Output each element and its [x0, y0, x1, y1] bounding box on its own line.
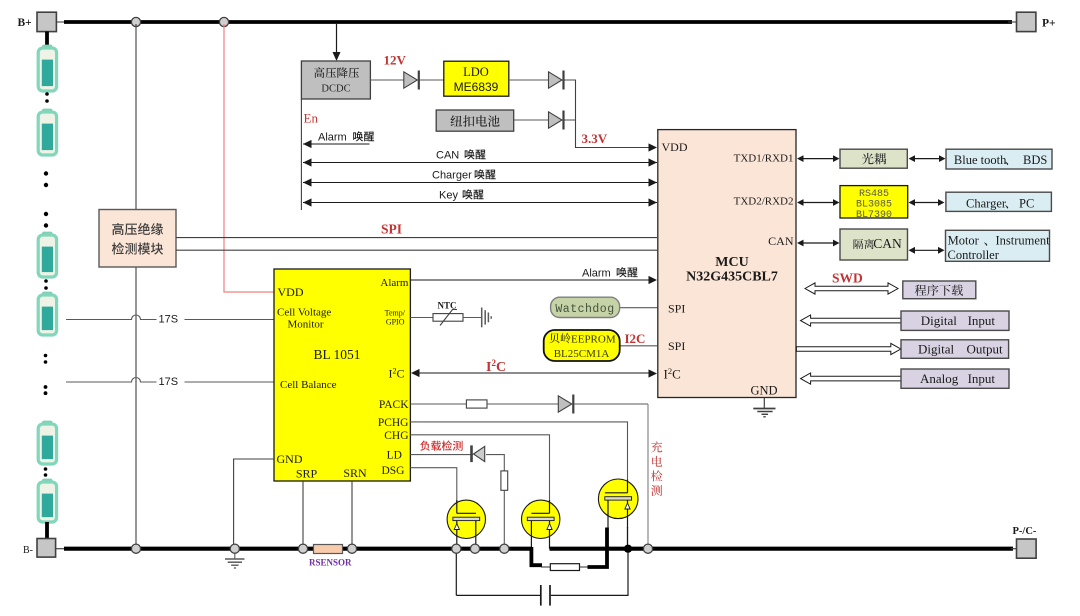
- ground symbol below bus: [234, 554, 236, 559]
- wire GND to bottom bus: [234, 459, 274, 544]
- svg-text:En: En: [304, 111, 319, 126]
- wire capacitor right to bus junction: [551, 551, 628, 595]
- chassis ground right-facing: [481, 308, 483, 328]
- svg-text:PC: PC: [1019, 197, 1034, 211]
- SWD hollow double arrow: [805, 283, 898, 294]
- RS485 transceiver box: [840, 186, 908, 218]
- svg-text:I2C: I2C: [664, 366, 681, 382]
- svg-text:ME6839: ME6839: [454, 80, 499, 94]
- diode D1: [404, 72, 418, 88]
- svg-text:CHG: CHG: [384, 430, 408, 442]
- svg-text:SWD: SWD: [832, 271, 863, 286]
- series dots: [44, 279, 48, 283]
- DCDC converter box: [301, 61, 370, 99]
- svg-text:VDD: VDD: [662, 140, 688, 154]
- Charger PC box: [946, 192, 1052, 211]
- resistor on PACK line: [466, 400, 487, 408]
- svg-text:Digital: Digital: [918, 342, 954, 357]
- svg-text:Blue tooth: Blue tooth: [954, 153, 1007, 167]
- battery cell 1: [38, 45, 56, 91]
- wire DCDC to diode D1: [370, 79, 403, 81]
- node on bottom bus at x136: [131, 544, 140, 553]
- svg-text:GND: GND: [277, 452, 303, 466]
- coin cell box: [436, 110, 514, 131]
- node on bottom bus at Q1 right: [470, 544, 479, 553]
- svg-text:Alarm: Alarm: [318, 132, 347, 144]
- svg-text:Input: Input: [968, 371, 996, 386]
- MOSFET Q3 precharge: [598, 479, 638, 519]
- svg-text:B-: B-: [23, 545, 33, 556]
- svg-text:CAN: CAN: [768, 234, 794, 248]
- node on bottom bus at SRP: [298, 544, 307, 553]
- wire SPI line 1: [176, 237, 657, 239]
- svg-text:SRP: SRP: [296, 466, 318, 480]
- svg-text:N32G435CBL7: N32G435CBL7: [686, 270, 778, 285]
- svg-text:I2C: I2C: [486, 358, 506, 375]
- battery cell 6: [38, 479, 56, 522]
- wire resistor to diode D4: [487, 403, 558, 405]
- wire top bus down to DCDC with arrow: [336, 24, 338, 53]
- svg-text:Cell Voltage: Cell Voltage: [277, 307, 331, 319]
- node on bottom bus at load: [500, 544, 509, 553]
- node on bottom bus at SRN: [347, 544, 356, 553]
- wire B+ pad to battery stack: [45, 32, 49, 47]
- MOSFET Q2 charge: [522, 500, 560, 538]
- wire DSG to Q1 gate: [410, 468, 456, 514]
- svg-text:CAN: CAN: [873, 236, 902, 251]
- 3.3V rail wire to MCU VDD: [576, 80, 651, 148]
- wire D2 to 3.3V rail: [565, 79, 577, 81]
- Bluetooth BDS box: [946, 149, 1052, 169]
- wire MCU CAN to isolated CAN: [799, 242, 838, 244]
- battery cell 2: [38, 109, 56, 155]
- svg-text:Instrument: Instrument: [996, 234, 1051, 248]
- wire Alarm wake: [303, 143, 370, 145]
- thermistor NTC: [433, 314, 463, 322]
- wire SPI line 2: [176, 249, 657, 251]
- svg-text:P-/C-: P-/C-: [1013, 526, 1037, 537]
- label load detect: [420, 441, 462, 451]
- svg-text:P+: P+: [1042, 18, 1056, 30]
- current sense resistor RSENSOR: [314, 545, 343, 554]
- wire precharge resistor right: [580, 566, 590, 568]
- svg-text:VDD: VDD: [278, 285, 304, 299]
- wire Alarm to MCU: [410, 279, 653, 281]
- MCU N32G435CBL7 box: [658, 130, 796, 398]
- svg-text:CAN: CAN: [436, 150, 459, 162]
- wire watchdog to MCU SPI: [620, 307, 658, 309]
- svg-text:LDO: LDO: [463, 65, 489, 79]
- wire PCHG to Q3 gate: [410, 422, 627, 492]
- svg-text:EEPROM: EEPROM: [571, 333, 616, 345]
- wire EEPROM to MCU SPI: [620, 345, 658, 347]
- svg-text:Cell Balance: Cell Balance: [280, 379, 337, 391]
- svg-text:3.3V: 3.3V: [582, 131, 608, 146]
- bottom bus left segment: [56, 548, 68, 550]
- svg-text:BL 1051: BL 1051: [313, 347, 360, 362]
- wire D5 to load resistor: [486, 455, 504, 471]
- Digital Output box: [901, 340, 1009, 359]
- svg-text:PCHG: PCHG: [378, 417, 409, 429]
- diode D5 left-pointing: [470, 445, 473, 462]
- svg-text:Monitor: Monitor: [288, 319, 324, 331]
- ellipsis dots pair: [44, 385, 48, 389]
- wire Temp/GPIO to NTC: [410, 317, 433, 319]
- svg-text:BL3085: BL3085: [856, 199, 892, 210]
- wire bus down to capacitor left: [455, 551, 457, 596]
- wire Key wake: [303, 202, 657, 204]
- wire CAN wake: [303, 162, 657, 164]
- svg-text:BDS: BDS: [1023, 153, 1047, 167]
- terminal B- pad: [37, 539, 56, 558]
- wire battery stack to B- pad: [45, 522, 49, 539]
- ellipsis dots pair: [44, 171, 48, 175]
- wire RS485 to charger pc: [911, 202, 943, 204]
- vertical wire from top bus node to bottom bus: [135, 24, 137, 546]
- svg-text:17S: 17S: [159, 376, 179, 388]
- wire CHG to Q2 gate: [410, 435, 549, 514]
- diode D3: [549, 112, 563, 128]
- resistor load detect vertical: [501, 471, 508, 490]
- wire capacitor left horizontal: [456, 594, 540, 596]
- svg-text:Watchdog: Watchdog: [555, 303, 614, 316]
- node on bottom bus at Q1 left: [452, 544, 461, 553]
- svg-text:BL7390: BL7390: [856, 210, 892, 221]
- node on top bus at x224: [219, 17, 228, 26]
- wire SRN to bus: [351, 481, 353, 544]
- wire 17S line 2 with hop: [66, 378, 274, 382]
- svg-text:I2C: I2C: [389, 367, 405, 381]
- wire En vertical below DCDC: [300, 99, 302, 210]
- svg-text:TXD2/RXD2: TXD2/RXD2: [734, 195, 794, 207]
- svg-text:RSENSOR: RSENSOR: [309, 558, 352, 568]
- svg-text:Key: Key: [439, 190, 458, 202]
- Motor Instrument Controller box: [946, 230, 1050, 261]
- program download box: [903, 281, 976, 299]
- isolated CAN box: [840, 229, 908, 260]
- node on top bus at x136: [131, 17, 140, 26]
- svg-text:Alarm: Alarm: [380, 277, 409, 289]
- wire load resistor to bus: [503, 490, 505, 544]
- svg-text:DCDC: DCDC: [321, 84, 350, 95]
- wire Charger wake: [303, 182, 657, 184]
- svg-text:SPI: SPI: [668, 339, 685, 353]
- MOSFET Q1 discharge: [447, 500, 485, 538]
- svg-text:Charger: Charger: [966, 197, 1007, 211]
- svg-text:GND: GND: [750, 384, 777, 398]
- Analog Input box: [901, 369, 1009, 388]
- svg-text:SPI: SPI: [381, 222, 402, 237]
- svg-text:Digital: Digital: [921, 313, 957, 328]
- battery cell 5: [38, 421, 56, 464]
- svg-text:Temp/: Temp/: [385, 309, 406, 318]
- EEPROM BL25CM1A box: [544, 330, 620, 361]
- wire isolated CAN to motor: [911, 249, 943, 251]
- precharge resistor: [550, 564, 579, 571]
- red enable wire from top bus to BL1051 VDD: [224, 24, 274, 292]
- svg-text:Output: Output: [967, 342, 1004, 357]
- svg-text:Charger: Charger: [432, 170, 472, 182]
- LDO ME6839 box: [444, 61, 509, 96]
- diode D4: [558, 396, 572, 412]
- wire MCU TXD1 to optocoupler: [799, 158, 838, 160]
- svg-text:I2C: I2C: [625, 331, 646, 346]
- digital input hollow arrow: [801, 315, 901, 326]
- terminal P+ pad: [1017, 12, 1036, 31]
- series dots: [44, 354, 48, 358]
- wire SRP to bus: [302, 481, 304, 544]
- bottom bus right segment: [550, 547, 1014, 551]
- wire D4 to charge-detect drop: [575, 403, 649, 405]
- junction dot on bus: [624, 545, 632, 553]
- svg-text:GPIO: GPIO: [386, 318, 405, 327]
- digital output hollow arrow: [796, 343, 900, 354]
- svg-text:LD: LD: [387, 450, 402, 462]
- HV insulation detect module box: [99, 210, 176, 268]
- svg-text:SPI: SPI: [668, 302, 685, 316]
- wire 17S line 1 with hop: [66, 315, 274, 320]
- svg-text:B+: B+: [18, 17, 32, 29]
- wire I2C bus BL1051 to MCU: [412, 372, 654, 374]
- battery cell 4: [38, 292, 56, 335]
- svg-text:Input: Input: [968, 313, 996, 328]
- wire D3 to 3.3V rail: [565, 119, 577, 121]
- svg-text:Controller: Controller: [948, 248, 1000, 262]
- node on bottom bus at charge detect: [643, 544, 652, 553]
- svg-text:PACK: PACK: [379, 399, 409, 411]
- svg-text:Alarm: Alarm: [582, 267, 611, 279]
- wire coin cell to diode D3: [514, 119, 549, 121]
- terminal P-/C- pad: [1017, 539, 1037, 558]
- optocoupler box: [840, 149, 907, 168]
- terminal B+ pad: [37, 12, 56, 31]
- wire D1 to LDO: [420, 79, 444, 81]
- node on bottom bus at gnd: [230, 544, 239, 553]
- svg-text:SRN: SRN: [343, 466, 367, 480]
- BL1051 AFE box: [274, 269, 410, 481]
- wire LDO to diode D2: [509, 79, 549, 81]
- diode D2: [549, 72, 563, 88]
- series dots: [44, 467, 48, 471]
- Digital Input box: [901, 311, 1009, 330]
- Watchdog box: [551, 297, 620, 317]
- capacitor C1: [540, 585, 542, 606]
- series dots: [45, 92, 49, 96]
- label charge detect vertical: [651, 441, 662, 452]
- wire MCU TXD2 to RS485: [799, 202, 838, 204]
- svg-text:MCU: MCU: [715, 255, 748, 270]
- svg-text:DSG: DSG: [381, 465, 404, 477]
- svg-text:TXD1/RXD1: TXD1/RXD1: [734, 153, 794, 165]
- svg-text:RS485: RS485: [859, 189, 889, 200]
- svg-text:BL25CM1A: BL25CM1A: [554, 348, 610, 360]
- thick precharge path left corner: [531, 547, 542, 565]
- ellipsis dots pair: [44, 212, 48, 216]
- svg-text:Motor: Motor: [948, 234, 980, 248]
- thick precharge path right corner: [588, 528, 608, 568]
- MCU ground symbol: [763, 398, 765, 409]
- analog input hollow arrow: [801, 373, 901, 384]
- svg-text:Analog: Analog: [920, 371, 959, 386]
- wire NTC to ground: [463, 317, 481, 319]
- wire PACK to resistor: [410, 403, 466, 405]
- svg-text:17S: 17S: [159, 314, 179, 326]
- wire optocoupler to bluetooth: [911, 158, 944, 160]
- battery cell 3: [38, 232, 56, 277]
- svg-text:12V: 12V: [384, 53, 407, 68]
- top bus B+ to P+: [56, 21, 68, 23]
- wire charge detect vertical: [647, 404, 649, 544]
- wire LD to diode D5: [410, 454, 473, 456]
- wire to precharge resistor: [541, 566, 551, 568]
